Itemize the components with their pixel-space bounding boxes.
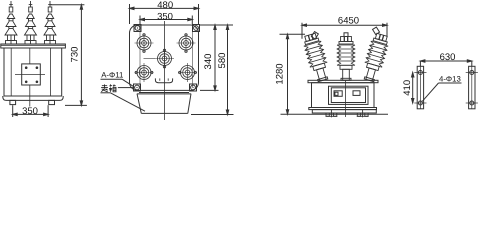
- svg-text:730: 730: [69, 47, 80, 63]
- svg-text:350: 350: [157, 11, 173, 22]
- svg-text:4-Φ13: 4-Φ13: [439, 75, 461, 84]
- svg-text:6450: 6450: [338, 16, 359, 27]
- svg-text:340: 340: [203, 54, 214, 70]
- svg-text:480: 480: [157, 0, 173, 11]
- svg-text:A-Φ11: A-Φ11: [101, 71, 123, 80]
- svg-text:350: 350: [22, 106, 38, 117]
- svg-text:1280: 1280: [274, 63, 285, 84]
- svg-text:580: 580: [217, 53, 228, 69]
- svg-text:410: 410: [402, 80, 413, 96]
- svg-text:630: 630: [440, 52, 456, 63]
